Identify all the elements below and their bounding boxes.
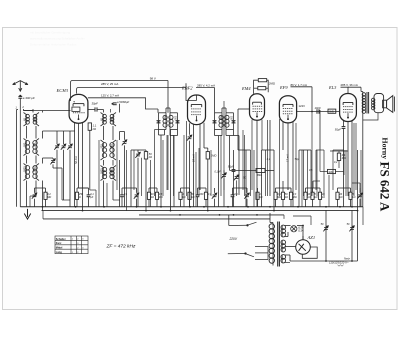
wire ift2 mid [225, 130, 227, 136]
wire link e [333, 149, 344, 151]
wire extra1 [133, 150, 135, 190]
svg-text:kΩ: kΩ [182, 196, 185, 199]
wire em4 ra [254, 80, 259, 94]
wire coilcol c [26, 156, 28, 164]
resistor 50k [144, 152, 147, 159]
capacitor ant series a390 [18, 96, 22, 98]
wire vertical fill [220, 135, 222, 196]
wire az1 top2 [297, 225, 303, 227]
wire em4 p3 [261, 120, 263, 151]
wire ift2 down2 [229, 136, 231, 171]
wire heater a [285, 225, 291, 227]
wire osc e [103, 181, 105, 207]
wire trim up [69, 131, 71, 144]
wire row c [122, 187, 137, 189]
wire osc sec up [119, 104, 121, 113]
wire ift1 down [160, 135, 162, 207]
wire osc d [112, 160, 114, 166]
wire grid to ECH3 [42, 110, 71, 112]
wire gang top [43, 130, 76, 132]
wire ECH3 pin1 [74, 123, 76, 207]
resistor 0,1M b [274, 188, 277, 207]
svg-text:2MΩ: 2MΩ [257, 174, 262, 177]
wire ift1 a [164, 130, 166, 136]
wire tmb [236, 180, 238, 196]
wire el3 p3 [351, 120, 353, 207]
svg-text:a 50/60µF: a 50/60µF [117, 100, 130, 104]
wire trim up [56, 131, 58, 144]
junction ef9 [311, 111, 313, 113]
capacitor elko b [349, 226, 354, 232]
capacitor 50uF el3 [342, 127, 346, 129]
svg-text:122V: 122V [299, 104, 306, 108]
capacitor 10nF [317, 109, 319, 113]
coil osc block2 [101, 140, 117, 160]
wire vertical fill [183, 135, 185, 207]
svg-text:1MΩ: 1MΩ [211, 153, 217, 157]
trimmer osc gang [122, 140, 127, 146]
wire el3 to trafo [360, 87, 362, 91]
junction bus1 [203, 206, 205, 208]
svg-text:98 V: 98 V [150, 76, 156, 80]
trimmer mid b [234, 175, 239, 181]
wire res down [89, 130, 91, 190]
bus bottom right [326, 260, 358, 262]
wire vertical fill [126, 150, 128, 211]
wire tm b [223, 178, 225, 206]
wire to osc coil [97, 109, 104, 111]
tube ECH3 [69, 94, 88, 123]
bus chassis 2 [42, 210, 358, 212]
wire sec b1 [42, 131, 44, 139]
wire cm a [233, 150, 235, 170]
wire coilcol down [26, 181, 28, 207]
capacitor 30pF [95, 107, 97, 111]
wire ift2 d2 [226, 135, 234, 137]
junction bus2 [145, 210, 147, 212]
wire ift2 g [221, 108, 223, 113]
svg-text:50µF: 50µF [335, 127, 342, 131]
junction bus3 [233, 214, 235, 216]
wire extra2 [141, 158, 143, 196]
wire ebf2 p0 [186, 121, 188, 196]
wire terminal2 to grid [24, 109, 42, 111]
resistor 20k b [336, 188, 339, 207]
svg-text:285 V, 25 mA: 285 V, 25 mA [101, 82, 118, 86]
svg-text:110/125/220 V~: 110/125/220 V~ [329, 260, 349, 264]
resistor 1,1k [88, 123, 91, 130]
wire link a [238, 149, 251, 151]
wire ift2 d [233, 130, 235, 136]
trimmer mid a [221, 173, 226, 179]
antenna arrowhead [19, 88, 22, 91]
wire vertical fill [116, 140, 118, 190]
wire em4 rb [267, 80, 269, 92]
resistor 1k mid [256, 188, 259, 207]
wire sec c2 [289, 255, 291, 261]
wire ift1 down2 [170, 130, 172, 211]
junction bus2 [82, 210, 84, 212]
junction bus1 [339, 206, 341, 208]
resistor em4 b [258, 87, 266, 90]
svg-text:17 mA: 17 mA [285, 154, 289, 162]
wire el3 link [330, 150, 348, 152]
wire em4 grid down [237, 109, 239, 150]
wire osctrim lk [120, 131, 125, 133]
wire row n [312, 181, 314, 188]
wire row k [282, 181, 284, 188]
trimmer padder [50, 159, 55, 165]
wire ift1 down3 [173, 136, 175, 207]
junction bus1 [227, 206, 229, 208]
wire ift1 f [170, 135, 178, 137]
capacitor mid [232, 170, 236, 172]
svg-text:220V: 220V [229, 237, 238, 241]
svg-text:Dokumentation historischer Rad: Dokumentation historischer Radios [30, 43, 77, 47]
wire bus4 left [42, 211, 44, 219]
wire ebf2 bracket [196, 87, 215, 89]
junction bus3 [256, 214, 258, 216]
wire ift1 i [169, 108, 171, 113]
wire ift2 extra2 [223, 101, 225, 190]
svg-text:kΩ: kΩ [307, 196, 310, 199]
svg-text:mit freundlicher Genehmigung: mit freundlicher Genehmigung [30, 31, 71, 35]
resistor 10k [304, 188, 307, 207]
wire row f [198, 187, 207, 189]
svg-text:125 V, 2,7 mA: 125 V, 2,7 mA [101, 93, 119, 97]
wire row o [313, 180, 320, 182]
resistor 20k [318, 188, 321, 207]
resistor 250 [75, 188, 78, 207]
wire el3 bracket [341, 86, 362, 88]
wire vertical fill [345, 150, 347, 196]
wire osc a [112, 126, 114, 140]
wire row a [35, 187, 46, 189]
trimmer bot c [212, 188, 217, 207]
wire ift1 d [169, 130, 171, 136]
svg-text:500: 500 [101, 144, 104, 149]
wire ebf2 k [195, 152, 197, 207]
capacitor ant dot [19, 95, 21, 97]
wire link b [262, 149, 275, 151]
wire coil top stub [32, 109, 34, 113]
wire ift1 h [166, 107, 170, 109]
wire ift1 c [159, 134, 165, 136]
wire cap link [112, 103, 114, 105]
wire ift2 i [225, 108, 227, 113]
wire vertical fill [253, 150, 255, 207]
svg-text:kΩ: kΩ [93, 127, 96, 131]
resistor 50k b [188, 188, 191, 207]
wire trafo sec down [362, 120, 364, 207]
capacitor elko a [323, 226, 328, 232]
wire em4 grid left [238, 108, 250, 110]
tube EL3 [340, 94, 357, 122]
wire q3 [207, 159, 209, 211]
wire sec top stub [42, 111, 44, 113]
wire ift2 f [234, 135, 240, 137]
wire r1m a [319, 150, 321, 172]
wire res stub [89, 122, 91, 124]
coil antenna block3 [24, 164, 40, 181]
wire ift2 down3 [238, 136, 240, 196]
wire elko a rail [325, 210, 327, 261]
coil osc block3 [101, 166, 117, 181]
wire trafo feed2 [270, 222, 273, 224]
wire q1 [207, 148, 209, 152]
svg-text:86 V, 1,7 mA: 86 V, 1,7 mA [291, 83, 308, 87]
wire ift1 extra2 [166, 135, 168, 190]
wire res bot2 [95, 190, 97, 207]
wire antenna lead [19, 81, 21, 92]
wire osc stub [110, 109, 112, 113]
wire bus285V [77, 88, 187, 94]
svg-text:0,1µF: 0,1µF [215, 171, 222, 174]
wire osc sec b [119, 132, 121, 141]
wire r1m b [320, 171, 328, 173]
junction bus2 [170, 210, 172, 212]
wire vertical fill [98, 140, 100, 207]
svg-text:kΩ: kΩ [352, 196, 355, 199]
wire heater b [285, 236, 289, 238]
wire ECH3 pin3 [82, 122, 84, 210]
wire 2M lb [265, 170, 274, 172]
wire coil top [24, 110, 34, 112]
wire sec down [42, 181, 44, 211]
wire sec c [285, 254, 291, 256]
wire osc f [112, 181, 114, 201]
svg-text:18 mA: 18 mA [192, 154, 196, 162]
svg-text:AZ1: AZ1 [307, 235, 316, 240]
wire 98V to IFT1 [167, 81, 169, 113]
svg-text:500: 500 [110, 144, 113, 149]
wire row j [338, 187, 351, 189]
svg-text:kΩ: kΩ [285, 196, 288, 199]
wire ift1 b [158, 130, 160, 136]
wire pad left [130, 150, 132, 207]
wire row m [199, 188, 201, 190]
coil osc block1 [101, 113, 117, 127]
wire ift1 j [155, 129, 159, 131]
wire link d [316, 149, 324, 151]
wire e link [30, 195, 36, 197]
trimmer bot e [244, 188, 249, 207]
wire trim up [63, 131, 65, 144]
svg-text:Ω: Ω [79, 196, 81, 199]
wire em4 rd [266, 87, 268, 89]
svg-text:MΩ: MΩ [293, 196, 297, 199]
resistor 1M el3 grid [328, 169, 336, 173]
svg-text:kΩ: kΩ [259, 196, 262, 199]
svg-text:EM4: EM4 [241, 86, 251, 91]
wire bus125V jog [88, 98, 158, 109]
wire tm a [223, 170, 225, 172]
wire vertical fill [210, 150, 212, 196]
wire right rail [357, 211, 359, 261]
svg-text:285 V, 4,2 mA: 285 V, 4,2 mA [197, 83, 215, 87]
wire ebf2 p2 [193, 124, 195, 207]
svg-text:ECH3: ECH3 [56, 88, 69, 93]
wire ift2 h [222, 107, 226, 109]
wire el3 c2 [343, 129, 345, 207]
wire ECH3 anode out [88, 109, 95, 111]
svg-text:5000: 5000 [24, 166, 27, 172]
wire em4 rc [254, 87, 258, 89]
band switch table [55, 236, 88, 254]
wire ef9 p0 [279, 119, 281, 196]
wire osc sec down [119, 160, 121, 207]
svg-text:www.radiomuseum.org Schaltpla: www.radiomuseum.org Schaltplan-Archiv [30, 37, 85, 41]
trimmer gang 3 [67, 144, 72, 150]
svg-text:1MΩ: 1MΩ [328, 172, 333, 174]
capacitor 50/60 dot [112, 103, 114, 105]
svg-text:Lang: Lang [56, 251, 62, 254]
wire ebf2 p4 [203, 123, 205, 148]
junction bus1 [325, 206, 327, 208]
squiggle [338, 265, 344, 267]
loudspeaker [371, 94, 394, 113]
svg-text:5000: 5000 [101, 168, 104, 174]
voltage selector switch [228, 222, 268, 259]
svg-text:5000: 5000 [110, 168, 113, 174]
junction bus1 [136, 206, 138, 208]
wire az1 top [302, 226, 304, 237]
wire right stub [362, 207, 364, 225]
svg-text:kΩ: kΩ [191, 196, 194, 199]
wire p4 [145, 159, 147, 211]
junction bus1 [42, 206, 44, 208]
junction bus2 [357, 210, 359, 212]
resistor 2M mid [256, 169, 265, 173]
lamp dial 6,3V [291, 226, 297, 232]
wire el3 c1 [343, 121, 345, 127]
wire ebf2 k2 [198, 148, 200, 196]
wire verticals middle [245, 150, 247, 207]
wire row d [149, 187, 157, 189]
bus chassis 1 [20, 206, 363, 208]
resistor 0,1 c [204, 188, 207, 207]
wire vertical fill [301, 150, 303, 207]
wire bus3 right [283, 215, 285, 219]
svg-text:a 390 µF: a 390 µF [23, 96, 35, 100]
wire ef9 p3 [292, 122, 294, 207]
capacitor 0,1 b [120, 188, 124, 207]
trimmer gang 2 [61, 144, 66, 150]
wire cm b [233, 172, 235, 207]
svg-text:kΩ: kΩ [339, 196, 342, 199]
svg-text:ZF = 472 kHz: ZF = 472 kHz [106, 244, 136, 250]
wire elko b rail [351, 210, 353, 261]
wire vertical fill [162, 140, 164, 196]
trimmer bot b [134, 188, 139, 207]
wire seg 216 [293, 215, 311, 217]
wire e down [29, 196, 31, 207]
resistor 1k [179, 188, 182, 207]
wire ift1 e [177, 130, 179, 136]
svg-text:50µ: 50µ [295, 158, 300, 161]
junction br2 [325, 260, 327, 262]
wire padder link [43, 157, 54, 159]
wire osc top [103, 110, 105, 113]
wire row h [276, 187, 292, 189]
svg-text:Mittel: Mittel [56, 247, 63, 250]
wire terminal1 stub [17, 109, 19, 111]
rectifier AZ1 [296, 236, 311, 254]
wire terminal1 down [16, 110, 18, 207]
junction bus3 [179, 214, 181, 216]
wire sec b2 [42, 158, 44, 164]
wire ift2 down [218, 136, 220, 207]
trimmer bot f [357, 188, 362, 207]
IF transformer 1 [157, 113, 180, 130]
resistor 5k b [349, 188, 352, 207]
svg-text:kΩ: kΩ [149, 155, 152, 159]
svg-text:Schalter: Schalter [56, 238, 66, 241]
tube EM4 [250, 94, 265, 121]
resistor em4 a [258, 79, 266, 82]
antenna [13, 81, 28, 85]
wire row l [287, 188, 289, 190]
wire p1 [137, 150, 139, 152]
capacitor bot d [231, 188, 235, 207]
svg-text:5000: 5000 [33, 166, 36, 172]
output transformer [361, 92, 369, 121]
resistor 0,3M [155, 188, 158, 207]
wire sec c3 [290, 260, 326, 262]
svg-text:2MΩ: 2MΩ [268, 81, 276, 85]
wire antenna down [19, 98, 21, 207]
svg-text:52 mA: 52 mA [74, 156, 78, 164]
svg-text:MΩ: MΩ [342, 156, 346, 160]
wire osc b [103, 126, 105, 140]
tube EBF2 [188, 95, 206, 125]
wire vertical fill [316, 150, 318, 196]
svg-text:Kurz: Kurz [56, 242, 62, 245]
wire 285V to EBF2 [186, 83, 197, 100]
wire ef9 to el3 [297, 111, 340, 113]
junction br1 [351, 260, 353, 262]
junction bus1 [269, 206, 271, 208]
wire osc f2 [113, 199, 120, 201]
wire el3 p2 [347, 122, 349, 197]
svg-text:500: 500 [33, 142, 36, 147]
wire padder bot [62, 199, 70, 201]
wire coilcol a [26, 126, 28, 139]
capacitor 50/60uF [113, 103, 117, 105]
wire row i [306, 187, 321, 189]
wire q2 [204, 147, 208, 149]
wire vertical fill [267, 120, 269, 196]
wire trim down [56, 150, 58, 207]
svg-text:kΩ: kΩ [314, 196, 317, 199]
wire vertical fill [106, 183, 108, 207]
junction bus2 [207, 210, 209, 212]
wire heater b2 [287, 232, 289, 237]
svg-text:EBF2: EBF2 [181, 86, 193, 91]
resistor 5k [311, 188, 314, 207]
wire to IFT2 [214, 88, 216, 113]
wire ift1 g [165, 108, 167, 113]
wire p2 [137, 158, 139, 207]
resistor 0,2M [44, 188, 47, 207]
wire sec d [285, 262, 291, 264]
coil antenna block2 [24, 139, 40, 156]
wire vertical fill [353, 123, 355, 196]
wire ECH3 cathode [78, 123, 80, 188]
junction bus1 [351, 206, 353, 208]
svg-text:500: 500 [24, 142, 27, 147]
wire row q [352, 182, 360, 184]
